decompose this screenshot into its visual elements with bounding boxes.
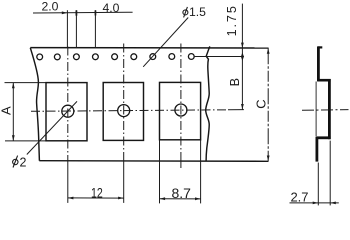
sprocket hole 6 [131, 54, 137, 60]
sprocket hole 5 [112, 54, 118, 60]
dimension 12 line [68, 197, 124, 199]
right break edge of tape [206, 46, 210, 160]
side profile: top tape surface line [317, 46, 320, 81]
vertical centerline pocket 1 [67, 47, 69, 162]
sprocket hole 9 [188, 54, 194, 60]
dimension line 1.75 and B (shared vertical) [241, 4, 243, 110]
dimension C up arrow [267, 48, 270, 53]
sprocket hole 3 [74, 54, 80, 60]
side profile: pocket outer wall [328, 79, 331, 139]
vertical centerline pocket 2 [123, 44, 125, 162]
extension line at sprocket hole 4 center (4.0 right bound) [94, 10, 96, 48]
dimension 8.7 right arrow [195, 197, 200, 200]
pocket 1 outline [46, 83, 87, 141]
dimension 12 right arrow [118, 197, 123, 200]
dimension A up arrow [12, 83, 15, 88]
sprocket hole 2 [54, 54, 60, 60]
svg-text:4.0: 4.0 [103, 1, 120, 15]
svg-text:12: 12 [91, 186, 103, 202]
vertical centerline pocket 3 [180, 44, 182, 162]
pocket hole 1 (phi 2) [62, 105, 74, 117]
vertical centerline pocket 3 below tape [180, 161, 182, 171]
dimension C down arrow [267, 156, 270, 161]
sprocket hole 4 [93, 54, 99, 60]
svg-text:2: 2 [20, 155, 27, 169]
dimension 2.7 right extension line [329, 141, 331, 206]
left break edge of tape [30, 48, 39, 161]
dimension 2.7 left extension line [317, 163, 319, 206]
extension line at sprocket hole 3 center (2.0/4.0 shared bound) [75, 10, 77, 48]
side profile horizontal centerline [302, 109, 349, 112]
horizontal centerline extension to dim B [228, 109, 244, 111]
double arrow tick at x=76.4 [76, 10, 78, 15]
sprocket hole 7 [150, 54, 156, 60]
side profile: pocket bottom step [316, 136, 331, 139]
svg-text:1.75: 1.75 [225, 4, 239, 36]
label phi 1.5 : phi symbol [183, 7, 188, 18]
dimension A line [12, 83, 14, 141]
sprocket hole 1 [37, 54, 43, 60]
leader line for phi 2 [27, 101, 77, 154]
dimension 12 left arrow [68, 197, 73, 200]
extension line pocket1 centerline below tape (12 left bound) [67, 161, 69, 203]
extension line pocket3 left edge below tape (8.7 left bound) [159, 140, 161, 204]
pocket hole 2 [118, 105, 130, 117]
dimension A extension line top [5, 82, 47, 84]
label phi 2 : phi symbol [13, 156, 18, 168]
svg-text:2.0: 2.0 [42, 0, 59, 14]
pocket hole 3 [175, 104, 187, 116]
svg-text:2.7: 2.7 [290, 190, 308, 205]
side profile: lower tape surface line [315, 137, 318, 162]
svg-text:A: A [0, 106, 14, 115]
pocket 2 outline [103, 83, 143, 141]
carrier tape bottom edge [39, 160, 268, 163]
sprocket hole center extension line to right [195, 56, 244, 58]
dimension 2.7 left arrow (outside, pointing right) [313, 202, 318, 205]
dimension 2.7 right arrow (outside, pointing left) [330, 202, 335, 205]
side profile: pocket top step [317, 79, 330, 82]
dimension 2.0 / 4.0 chained dimension line [33, 11, 133, 14]
side profile: pocket opening thin line [315, 82, 317, 137]
arrow pointing right at x=67.4 [62, 11, 67, 14]
double arrow at sprocket hole centerline (1.75 lower / B upper bound) [241, 52, 244, 61]
svg-text:1.5: 1.5 [189, 5, 206, 19]
extension line at pocket1 centerline (2.0 left bound) [66, 10, 68, 48]
carrier tape top edge [30, 47, 268, 49]
svg-text:B: B [228, 78, 242, 86]
arrow tick at x=95.4 [95, 10, 97, 15]
horizontal centerline through pockets [31, 110, 228, 112]
dimension 8.7 line [160, 198, 201, 200]
dimension A down arrow [12, 135, 15, 140]
dimension 2.7 line [290, 202, 339, 204]
pocket 3 outline [160, 82, 201, 139]
sprocket hole 8 [169, 54, 175, 60]
extension line pocket3 right edge below tape (8.7 right bound) [200, 140, 202, 204]
arrow down at pocket centerline (B lower bound) [241, 104, 244, 109]
extension line pocket2 centerline below tape (12 right bound) [123, 161, 125, 203]
side profile: top nub [318, 46, 322, 48]
leader line for phi 1.5 [143, 18, 188, 67]
dimension C line [267, 48, 269, 161]
dimension 8.7 left arrow [160, 197, 165, 200]
svg-text:8.7: 8.7 [171, 185, 191, 201]
dimension A extension line bottom [5, 140, 46, 142]
arrow down at tape top edge (1.75 upper bound) [241, 43, 244, 48]
svg-text:C: C [253, 99, 268, 108]
